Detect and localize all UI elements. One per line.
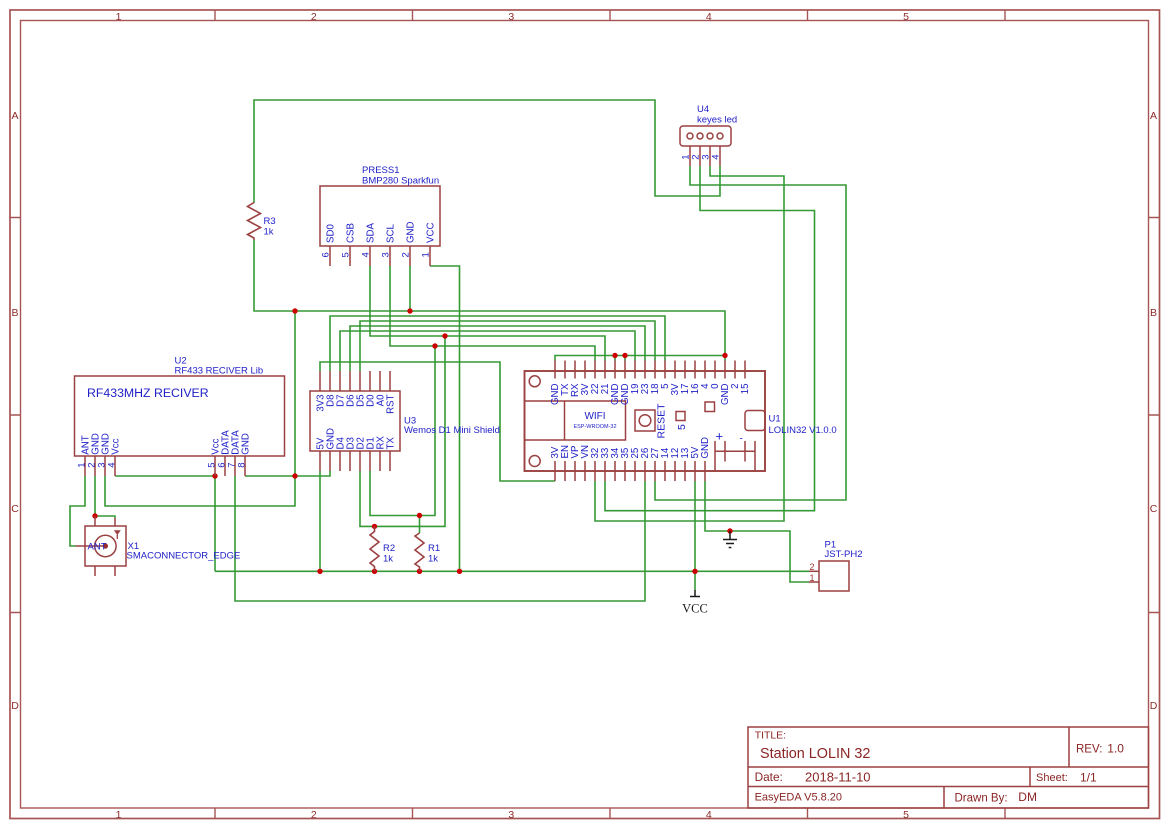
svg-text:BMP280 Sparkfun: BMP280 Sparkfun <box>362 176 439 187</box>
svg-text:TX: TX <box>386 437 397 450</box>
svg-text:D: D <box>1150 700 1158 712</box>
wire ESP32 GND bus <box>555 356 725 361</box>
TITLE BLOCK <box>748 727 1149 808</box>
svg-text:5: 5 <box>903 809 909 821</box>
node VCC rail R1 <box>417 569 422 574</box>
node ground symbol x730 y531 <box>727 528 732 533</box>
svg-text:2: 2 <box>810 562 815 572</box>
wire U3 D7 to ESP32 pin19 <box>340 331 635 371</box>
svg-text:3: 3 <box>381 252 392 257</box>
node GND bus x615 <box>612 353 617 358</box>
pins U1 top row <box>555 361 745 379</box>
wire PRESS1 SDA to ESP32 pin21 <box>370 266 605 361</box>
U1 hole bottom <box>529 456 540 467</box>
node VCC rail R2 <box>372 569 377 574</box>
svg-text:R2: R2 <box>383 543 395 554</box>
ic U2 RF433 receiver <box>75 376 285 476</box>
node X1 x95 y516 <box>92 513 97 518</box>
svg-text:VCC: VCC <box>682 601 708 615</box>
wire PRESS1 SCL to ESP32 pin22 <box>390 266 595 361</box>
svg-text:SD0: SD0 <box>326 224 337 243</box>
wire VCC flag stem <box>694 571 696 590</box>
svg-text:5: 5 <box>676 424 688 430</box>
svg-text:C: C <box>11 503 19 515</box>
svg-text:1k: 1k <box>264 227 274 238</box>
svg-text:1.0: 1.0 <box>1107 742 1124 756</box>
pins PRESS1 <box>330 246 430 266</box>
node VCC rail x459 <box>457 569 462 574</box>
svg-text:VCC: VCC <box>426 223 437 243</box>
wire GND vertical x295 <box>294 311 296 476</box>
svg-text:1: 1 <box>810 573 815 583</box>
pin X1 top a <box>94 516 96 526</box>
svg-text:A: A <box>11 110 18 122</box>
ic U3 Wemos D1 Mini Shield <box>310 371 400 471</box>
svg-text:1: 1 <box>421 252 432 257</box>
svg-text:1/1: 1/1 <box>1080 770 1097 784</box>
svg-text:keyes led: keyes led <box>697 115 737 126</box>
resistor R1 <box>415 533 424 571</box>
wire U2 pin8 GND to U3 GND <box>245 471 330 476</box>
wire SCL pullup net R1 <box>370 346 435 516</box>
svg-text:3: 3 <box>508 11 514 23</box>
X1 coax circle <box>95 535 116 556</box>
pin P1.2 <box>809 570 819 572</box>
pin U2.2 <box>94 456 96 476</box>
svg-text:ESP-WROOM-32: ESP-WROOM-32 <box>573 424 616 430</box>
resistor R2 <box>370 526 379 571</box>
svg-text:GND: GND <box>700 437 711 459</box>
U1 right pad <box>745 411 765 431</box>
pin U2.7 <box>234 456 236 476</box>
wire VCC rail <box>215 570 809 572</box>
svg-text:6: 6 <box>321 252 332 257</box>
wire U2 pin1 to X1 ANT <box>70 476 85 546</box>
svg-text:JST-PH2: JST-PH2 <box>825 549 863 560</box>
wire ESP32 5V to VCC rail <box>694 481 696 571</box>
svg-text:PRESS1: PRESS1 <box>362 165 400 176</box>
node Vcc x215 y476 <box>212 473 217 478</box>
svg-text:15: 15 <box>740 384 751 395</box>
svg-text:2: 2 <box>311 11 317 23</box>
pin U2.4 <box>114 456 116 476</box>
node VCC rail x320 <box>317 569 322 574</box>
pin X1 bottom b <box>114 566 116 576</box>
pin P1.1 <box>809 581 819 583</box>
node GND x295 y476 <box>292 473 297 478</box>
svg-text:+: + <box>716 429 724 444</box>
wire ESP32 GND bottom bus to P1 pin1 <box>705 481 809 582</box>
U4 hole 4 <box>717 133 723 139</box>
node GND bus x625 <box>622 353 627 358</box>
svg-text:DM: DM <box>1018 790 1037 804</box>
ic PRESS1 BMP280 <box>320 186 440 266</box>
U1 reset button <box>635 410 655 431</box>
svg-text:B: B <box>11 307 18 319</box>
wire U3 5V down to VCC rail <box>319 471 321 571</box>
U4 hole 3 <box>707 133 713 139</box>
svg-text:SCL: SCL <box>386 224 397 243</box>
svg-text:U4: U4 <box>697 104 709 115</box>
U1 small square a <box>676 412 685 421</box>
pin U2.3 <box>104 456 106 476</box>
svg-text:B: B <box>1150 307 1157 319</box>
wire R3 top to U4 pin4 <box>254 100 720 203</box>
X1 center dot <box>103 543 108 548</box>
svg-text:4: 4 <box>706 11 712 23</box>
wire U2 pin4 Vcc to pin5 <box>115 475 215 477</box>
svg-text:R3: R3 <box>264 216 276 227</box>
node GND x295 y311 <box>292 308 297 313</box>
pins U3 top <box>320 371 390 391</box>
wire U2 pin3 GND loop <box>105 476 295 506</box>
svg-text:2018-11-10: 2018-11-10 <box>805 769 871 784</box>
wire SDA pullup net R2 <box>360 336 445 526</box>
wire U4 pin1 to ESP32 pin27 <box>655 166 846 500</box>
wire U3 D5 to ESP32 pin18 <box>360 321 655 371</box>
svg-text:REV:: REV: <box>1076 743 1102 755</box>
svg-text:CSB: CSB <box>346 223 357 243</box>
svg-text:EasyEDA V5.8.20: EasyEDA V5.8.20 <box>755 791 842 803</box>
svg-text:SDA: SDA <box>366 223 377 243</box>
svg-text:1: 1 <box>116 809 122 821</box>
svg-text:1k: 1k <box>428 554 438 565</box>
U1 hole top <box>529 376 540 387</box>
svg-text:LOLIN32 V1.0.0: LOLIN32 V1.0.0 <box>769 425 837 436</box>
svg-text:ANT: ANT <box>88 542 107 553</box>
svg-text:2: 2 <box>401 252 412 257</box>
U4 hole 1 <box>687 133 693 139</box>
svg-text:5: 5 <box>903 11 909 23</box>
node R2 top <box>372 524 377 529</box>
svg-text:RESET: RESET <box>656 403 668 439</box>
wire U2 pin2 to X1 top pins <box>95 476 115 518</box>
wire U3 D8 to ESP32 pin5 <box>330 316 665 371</box>
wire PRESS1 GND down <box>409 266 411 311</box>
svg-text:RF433MHZ RECIVER: RF433MHZ RECIVER <box>87 386 209 400</box>
pin X1 bottom a <box>94 566 96 576</box>
connector P1 JST-PH2 <box>809 561 849 591</box>
svg-text:1: 1 <box>116 11 122 23</box>
pin U2.8 <box>244 456 246 476</box>
svg-text:WIFI: WIFI <box>584 411 605 422</box>
wire R3 bottom to GND rail <box>254 240 725 356</box>
wire U3 D6 to ESP32 pin23 <box>350 326 645 371</box>
wire U2 pin7 DATA to ESP32 pin26 <box>235 476 645 601</box>
svg-text:4: 4 <box>711 155 722 160</box>
node R1 top <box>417 513 422 518</box>
svg-text:3: 3 <box>508 809 514 821</box>
module U1 LOLIN32 <box>525 371 766 471</box>
pin U2.1 <box>84 456 86 476</box>
connector X1 SMA <box>76 516 127 576</box>
JUNCTIONS <box>92 308 732 574</box>
svg-text:4: 4 <box>107 462 118 467</box>
node GND x410 y311 <box>407 308 412 313</box>
led module U4 keyes led <box>680 126 731 166</box>
U1 small square b <box>705 402 715 412</box>
svg-text:8: 8 <box>237 462 248 467</box>
pin X1 top b <box>114 518 116 526</box>
pin X1 ANT <box>76 545 106 547</box>
wire PRESS1 VCC to VCC rail <box>430 266 460 571</box>
node SDA x445 y336 <box>442 333 447 338</box>
svg-text:SMACONNECTOR_EDGE: SMACONNECTOR_EDGE <box>127 551 241 562</box>
svg-text:5: 5 <box>341 252 352 257</box>
wire U4 pin3 to ESP32 pin32 <box>595 166 784 521</box>
svg-text:Sheet:: Sheet: <box>1036 772 1068 784</box>
pins U3 bottom <box>320 451 390 471</box>
node VCC rail x695 <box>692 569 697 574</box>
svg-text:RF433 RECIVER Lib: RF433 RECIVER Lib <box>175 366 264 377</box>
svg-text:Wemos D1 Mini Shield: Wemos D1 Mini Shield <box>404 425 500 436</box>
svg-text:4: 4 <box>361 252 372 257</box>
svg-text:TITLE:: TITLE: <box>755 730 786 741</box>
svg-text:RST: RST <box>386 394 397 413</box>
svg-text:Station LOLIN 32: Station LOLIN 32 <box>760 746 870 762</box>
node GND bus x725 <box>722 353 727 358</box>
node SCL x435 y346 <box>432 343 437 348</box>
svg-text:-: - <box>740 434 743 445</box>
svg-text:U1: U1 <box>769 414 781 425</box>
pin U2.5 <box>214 456 216 476</box>
svg-text:4: 4 <box>706 809 712 821</box>
U1 battery connector icon <box>715 441 755 471</box>
pins U1 bottom row <box>555 461 705 481</box>
svg-text:1k: 1k <box>383 554 393 565</box>
svg-text:Vcc: Vcc <box>111 438 122 454</box>
wire U3 3V3 to ESP32 3V <box>320 362 555 481</box>
pins U4 <box>690 146 720 166</box>
pin U2.6 <box>224 456 226 476</box>
svg-text:Date:: Date: <box>755 770 783 784</box>
U4 hole 2 <box>697 133 703 139</box>
svg-text:GND: GND <box>241 433 252 455</box>
svg-text:Drawn By:: Drawn By: <box>955 792 1008 804</box>
svg-text:2: 2 <box>311 809 317 821</box>
svg-text:GND: GND <box>406 221 417 243</box>
svg-text:C: C <box>1150 503 1158 515</box>
X1 antenna mark <box>114 530 121 535</box>
ground symbol <box>723 531 737 548</box>
U1 wifi shield box <box>525 401 626 440</box>
VCC net flag <box>690 590 700 597</box>
wire U4 pin2 to ESP32 pin33 <box>605 166 815 511</box>
svg-text:R1: R1 <box>428 543 440 554</box>
svg-text:D: D <box>11 700 19 712</box>
wire R1 top stub <box>419 516 421 534</box>
wire U2 pin5 down to VCC rail <box>214 476 216 571</box>
svg-text:A: A <box>1150 110 1157 122</box>
resistor R3 <box>248 203 261 241</box>
